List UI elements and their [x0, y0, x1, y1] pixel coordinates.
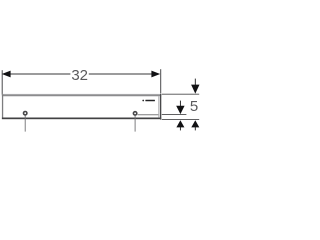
dimension 32: dimension line right segment: [89, 73, 153, 75]
inner dimension upper arrowhead: [176, 106, 184, 114]
dimension 32: dimension line left segment: [8, 73, 70, 75]
cover panel bottom edge: [2, 118, 161, 120]
cover panel right inner light edge: [158, 96, 159, 117]
dimension 32: right extension line: [160, 69, 162, 93]
dimension 32: right arrowhead: [151, 71, 160, 78]
svg-text:5: 5: [190, 98, 198, 115]
Geberit logo wordmark bar: [145, 100, 155, 102]
svg-text:32: 32: [71, 67, 88, 84]
dimension 5: upper arrow stem: [194, 79, 196, 85]
dimension 32: left arrowhead: [2, 71, 11, 78]
Geberit logo dot: [142, 100, 144, 102]
left screw circle: [24, 112, 27, 115]
dimension 5: lower arrow stem: [194, 127, 196, 130]
cover panel right outer edge: [160, 94, 161, 120]
dimension 5: upper arrowhead: [191, 85, 199, 94]
right screw centerline: [134, 116, 136, 132]
inner dimension lower arrow stem: [179, 127, 181, 130]
cover panel top edge: [2, 94, 161, 96]
inner dimension lower arrowhead: [176, 120, 184, 127]
bottom reference line: [162, 119, 199, 121]
dimension 5: lower arrowhead: [191, 120, 199, 127]
middle reference line: [162, 114, 187, 116]
dimension 32: left extension line: [1, 70, 3, 94]
inner dimension upper arrow stem: [179, 101, 181, 107]
right screw circle: [133, 112, 136, 115]
left screw centerline: [24, 116, 26, 132]
dimension 5: top reference line: [162, 93, 199, 95]
panel groove line to right end: [138, 114, 159, 116]
cover panel left edge: [2, 94, 3, 119]
